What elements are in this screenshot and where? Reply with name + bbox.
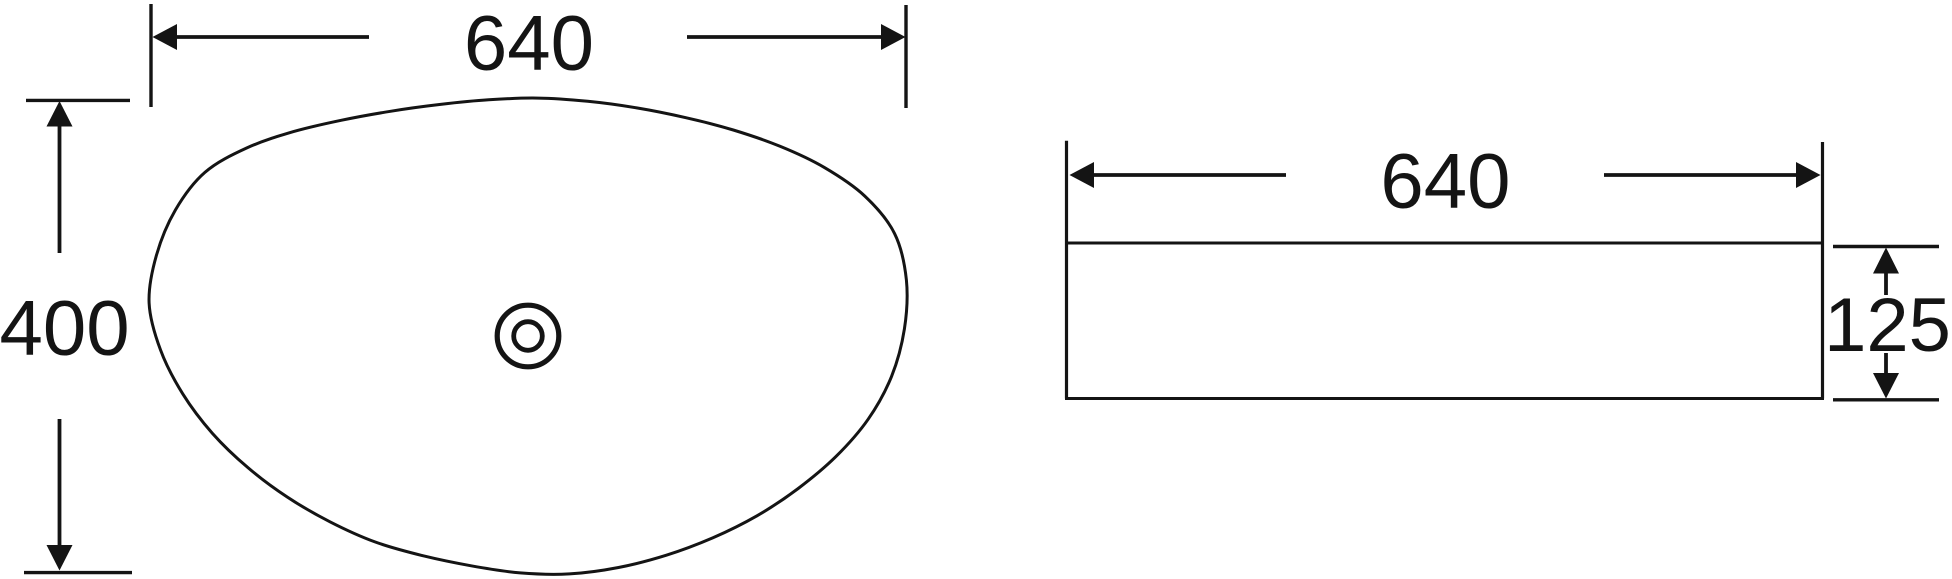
svg-text:640: 640 (1380, 137, 1510, 225)
dimension line 640 left segment (153, 24, 370, 50)
dimension line 400 lower segment (47, 419, 73, 571)
tick top (depth dim 125) (1833, 245, 1939, 248)
extension line left (top-view width dim) (149, 4, 152, 107)
side view left edge + extension (1065, 141, 1068, 399)
svg-text:400: 400 (0, 284, 130, 372)
dimension line 125 lower segment (1873, 353, 1899, 399)
extension line right (top-view width dim) (904, 5, 907, 108)
dimension line 640 right segment (687, 24, 906, 50)
tick bottom (depth dim 125) (1833, 398, 1939, 401)
drain inner circle (514, 322, 543, 351)
dimension line 640 side view left segment (1070, 162, 1287, 188)
dimension line 125 upper segment (1873, 248, 1899, 296)
svg-text:125: 125 (1824, 283, 1951, 368)
basin outline (top view oval) (149, 98, 907, 574)
tick bottom (height dim 400) (24, 571, 132, 574)
tick top (height dim 400) (26, 99, 130, 102)
side view bottom edge (1065, 397, 1824, 400)
side view right edge + extension (1821, 142, 1824, 399)
side view top edge (1067, 242, 1823, 245)
drain outer circle (497, 305, 559, 367)
svg-text:640: 640 (464, 0, 594, 87)
dimension line 400 upper segment (47, 101, 73, 253)
dimension line 640 side view right segment (1604, 162, 1821, 188)
